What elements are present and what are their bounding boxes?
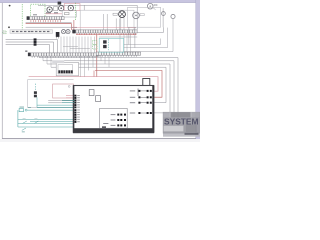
L1 drop (57, 40, 59, 53)
right lavender strip (196, 0, 200, 139)
aux box right of M3 (62, 11, 76, 17)
fuse F2 (96, 96, 101, 102)
teal dash link (108, 39, 110, 50)
supply line L3 (6, 44, 34, 46)
jog b (70, 48, 90, 50)
right drop of top line (136, 5, 138, 30)
terminal strip X2 upper (76, 30, 137, 33)
switch sw2 (34, 121, 38, 123)
top lavender strip (0, 0, 200, 3)
terminal strip X1 end cap (27, 16, 30, 20)
teal left riser (17, 110, 19, 127)
TB inner box (58, 65, 73, 74)
hook wire 1 (162, 8, 164, 27)
red bus long (95, 71, 162, 98)
marks right of compressor (154, 4, 157, 5)
M4 drop 2 (123, 18, 125, 30)
teal line 2 (18, 118, 75, 120)
green dashed bus mid (75, 3, 77, 20)
watermark gray block (186, 125, 197, 132)
fan motor M5 (133, 12, 140, 19)
cable pair a1 (103, 14, 105, 30)
condenser lower wire (137, 27, 163, 32)
teal line 1 (27, 109, 74, 111)
control board body (73, 86, 153, 133)
switch sw3 (22, 128, 26, 130)
watermark top blocks (163, 112, 169, 117)
watermark base (163, 112, 200, 137)
green dashed relay b (92, 45, 97, 49)
red riser (73, 20, 75, 34)
L2 drop (53, 42, 55, 53)
bottom bar tab (102, 126, 106, 128)
caption specks (185, 133, 199, 135)
relay rows in box (117, 114, 126, 127)
long red dropper (96, 35, 98, 77)
watermark lower strip (163, 134, 200, 137)
board right edge heavier (152, 86, 154, 133)
M4 drop 1 (120, 18, 122, 30)
legend green box (3, 31, 6, 34)
pink loop around M3 (64, 4, 80, 11)
green dashed relay a (92, 40, 97, 44)
drop c2 (134, 27, 136, 47)
terminal block TB (56, 63, 78, 76)
board left pin column (75, 95, 77, 123)
bus 2 (43, 61, 174, 127)
fuse F1 (89, 90, 94, 96)
door switch box (53, 84, 74, 98)
L3 cont (37, 44, 50, 46)
left pin labels (77, 95, 80, 122)
switch sw1 (23, 121, 27, 123)
label strip (10, 30, 53, 34)
sensor blob 2 (103, 45, 107, 48)
drops X2 to X3 (61, 37, 95, 53)
output row 2 (138, 96, 151, 98)
teal line 3 (30, 120, 75, 122)
pink wire (45, 13, 62, 15)
green dashed bus left (21, 4, 23, 33)
vertical label right (137, 89, 140, 97)
probe blob 1 (34, 91, 37, 94)
tiny labels (46, 12, 51, 13)
ties below X3 (39, 34, 131, 77)
sensor blob 1 (103, 40, 107, 43)
top horizontal supply line (38, 4, 137, 6)
teal line 4 (18, 122, 75, 124)
red bus under X2 (76, 34, 137, 36)
aux marks (65, 13, 70, 15)
teal line 5 (18, 126, 75, 128)
lavender strip edges (0, 2, 196, 4)
terminal strip X3 right part (96, 52, 140, 55)
terminal strip X1 (30, 17, 64, 20)
cable pair b1 (115, 19, 117, 30)
L3 drop (49, 45, 51, 53)
jog a (63, 46, 78, 48)
terminal strip X3 left part (31, 53, 99, 56)
bulb 1 (162, 12, 166, 16)
motor M3 (68, 5, 73, 10)
gray wire to board 2 (48, 102, 74, 104)
teal sensor probe (34, 84, 36, 91)
bus 1 (39, 58, 178, 127)
pink pin wire 1 (66, 95, 75, 97)
bottom outer margin (0, 139, 200, 142)
supply line L1 (6, 39, 34, 41)
motor M4 (119, 11, 126, 18)
bus 3 (47, 64, 170, 113)
node dot top-left (9, 5, 11, 7)
watermark white band (164, 126, 184, 132)
aux motor a (61, 30, 65, 34)
TB label bar (52, 60, 64, 63)
marks right of M5 (140, 14, 144, 16)
box mark (68, 86, 70, 88)
page bottom border (2, 137, 196, 139)
pink pin wire 2 (66, 97, 75, 99)
label text specks (12, 31, 49, 32)
teal pin wire b (62, 102, 75, 104)
upper middle enclosure (80, 10, 134, 30)
drop into enclosure (83, 5, 85, 10)
compressor stub (153, 7, 156, 9)
outer wrap wire (124, 19, 173, 52)
output row 1 (138, 90, 151, 92)
page left border (1, 3, 3, 139)
teal sensor box (99, 38, 123, 52)
gray bus 2 (26, 26, 77, 28)
marks left of M4 (113, 13, 117, 15)
bus 4 (51, 67, 166, 102)
L1 cont (37, 39, 58, 41)
relay legs (56, 37, 58, 39)
thermostat component (19, 109, 23, 112)
supply line L2 (6, 41, 34, 43)
L2 cont (37, 41, 54, 43)
red bus under X1 (26, 23, 72, 25)
bus under X1 (26, 22, 72, 24)
X3 left end cap (28, 53, 31, 57)
bulb 2 (171, 14, 175, 18)
teal pin wire a (62, 99, 75, 101)
drop c1 (128, 27, 130, 44)
output row 4 (138, 112, 151, 114)
probe blob 2 (34, 95, 37, 98)
X2 left end cap (72, 30, 75, 34)
board bottom bar (73, 128, 154, 132)
cable pair a2 (106, 14, 108, 30)
condenser enclosure (128, 7, 161, 27)
ticks under X3 right (97, 55, 136, 57)
page background (0, 0, 200, 142)
node dot mid-left (8, 26, 10, 28)
green dashed enclosure K1 (31, 4, 45, 17)
pink bus long (29, 77, 158, 92)
compressor symbol (147, 3, 153, 9)
short red link (93, 71, 95, 77)
bar shadow (73, 133, 154, 135)
wrap wire 3 (124, 39, 161, 45)
output row 3 (138, 102, 151, 104)
relay K2 body (56, 32, 60, 37)
TB dark pins (58, 70, 72, 73)
relay box on board (100, 108, 128, 128)
cable pair b2 (119, 19, 121, 30)
motor M2 cap (58, 2, 62, 5)
coupling box (54, 7, 58, 11)
top connector housing (143, 79, 150, 89)
N label (25, 50, 27, 52)
probe link down (36, 97, 38, 107)
aux motor b (66, 30, 70, 34)
teal circuit labels (20, 107, 32, 108)
red drops under X2 (77, 33, 136, 35)
red drops under X1 (31, 20, 60, 23)
lower-left enclosure (28, 80, 74, 108)
teal wire to board 1 (37, 104, 75, 106)
gray wire to board 1 (48, 100, 74, 102)
pink line above X2 (72, 27, 136, 29)
connector 3-pole (34, 38, 37, 45)
motor M2 (59, 6, 64, 11)
motor M1 (47, 7, 52, 12)
ticks under X3 left (32, 56, 95, 58)
teal wire to board 2 (37, 106, 75, 108)
gray line under X2 (99, 36, 137, 38)
board left edge heavier (73, 86, 75, 133)
inner wrap wire (124, 28, 168, 48)
red bus drop (71, 24, 73, 30)
